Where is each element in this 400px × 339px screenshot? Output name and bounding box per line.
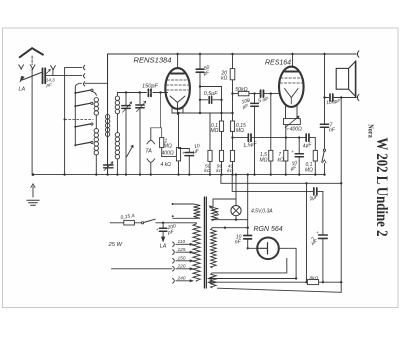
svg-text:TA: TA <box>145 149 152 155</box>
svg-text:MΩ: MΩ <box>236 128 244 134</box>
variable capacitor C-tune2 <box>139 93 141 105</box>
tube RES164 <box>279 67 304 107</box>
wire: left long vertical to bus <box>31 69 33 174</box>
wire: mains second pole <box>112 268 173 270</box>
wire: plate vertical with 50pF <box>199 54 201 69</box>
wire: speaker line y97.5 <box>325 97 329 99</box>
wire: lamp to bus vertical <box>235 175 237 199</box>
tap 110 <box>176 243 190 245</box>
wire: heater line y219.7 <box>213 216 248 220</box>
node: antenna socket Y left <box>19 65 24 70</box>
coil L3 lower <box>116 159 118 175</box>
capacitor 2uF electrolytic <box>319 235 328 238</box>
wire: RENS1384 top cap to rail <box>177 54 179 68</box>
ground symbol <box>32 187 34 198</box>
wire: vertical x306.5 feed <box>306 183 308 282</box>
fuse 0.15A <box>124 220 135 225</box>
node: contact ( 1 <box>84 65 85 69</box>
tube RGN564 <box>257 238 279 260</box>
switch arrow wave change <box>127 145 133 156</box>
resistor 90k divider <box>219 150 223 161</box>
wire: ground bus <box>33 174 325 176</box>
node: earth socket Y right <box>51 66 56 76</box>
trimmer arrow on antenna cap <box>45 69 51 75</box>
capacitor 0.5uF <box>200 99 222 101</box>
wire: output line y282.2 <box>208 281 341 283</box>
svg-text:kΩ: kΩ <box>278 157 285 163</box>
switch arm a <box>74 92 76 94</box>
svg-text:25 W: 25 W <box>108 242 123 248</box>
svg-text:nF: nF <box>329 127 336 133</box>
wire: right vertical x324.5 <box>324 54 326 124</box>
svg-text:kΩ: kΩ <box>221 76 228 82</box>
wire: vertical x322.9 down <box>322 191 324 234</box>
transformer core <box>204 197 206 288</box>
wire: to rectifier filament <box>248 247 258 249</box>
capacitor antenna series <box>42 68 44 83</box>
resistor 50k <box>238 91 249 95</box>
svg-text:4,5V,0,3A: 4,5V,0,3A <box>251 208 273 214</box>
wire: RES164 plate to rail <box>292 54 294 67</box>
wire: top contact feed <box>65 67 82 69</box>
svg-text:LA: LA <box>19 87 26 93</box>
svg-text:0,5μF: 0,5μF <box>204 91 218 97</box>
svg-text:MΩ: MΩ <box>211 128 219 134</box>
coil L1 lower <box>95 155 97 175</box>
svg-text:150pF: 150pF <box>142 84 158 90</box>
pilot lamp <box>231 206 241 216</box>
pilot lamp loop <box>213 199 236 206</box>
resistor 7k bias <box>284 150 288 161</box>
wire: vertical x=64.6 to bus <box>64 68 66 175</box>
resistor 0.1M <box>221 87 223 122</box>
wire: anode feed 1 <box>212 258 287 273</box>
tap 240 <box>176 280 190 282</box>
coil L2 <box>107 54 109 175</box>
mains terminal left <box>110 222 124 224</box>
capacitor 150pF series <box>148 89 151 96</box>
wire: anode feed 2 <box>208 278 296 280</box>
capacitor 50pF <box>196 69 204 72</box>
wire: AF line y137.6 <box>233 137 316 139</box>
capacitor 200pF mains <box>162 223 164 228</box>
svg-text:Nora: Nora <box>367 124 376 138</box>
resistor 0.15M <box>230 121 234 131</box>
svg-text:RGN 564: RGN 564 <box>254 226 283 233</box>
wire: cathode line y113 <box>172 112 233 114</box>
svg-text:RENS1384: RENS1384 <box>134 56 172 65</box>
svg-text:nF: nF <box>235 239 242 245</box>
capacitor 10uF bias bypass <box>298 138 300 154</box>
svg-text:LA: LA <box>160 243 167 249</box>
svg-text:+: + <box>182 151 185 156</box>
wire: contact3 right <box>85 82 108 84</box>
wire: HV top line y227.7 <box>212 227 248 229</box>
node: TA jack upper <box>147 128 155 144</box>
node: antenna socket Y mid <box>30 65 35 70</box>
svg-text:220: 220 <box>177 264 186 270</box>
svg-text:+: + <box>292 149 295 154</box>
wire: switch rail <box>75 83 81 146</box>
svg-text:8kΩ: 8kΩ <box>310 275 319 281</box>
transformer secondary 4V winding <box>212 206 218 221</box>
node: speaker terminal top <box>357 51 359 57</box>
capacitor 100uF <box>254 94 256 104</box>
svg-text:MΩ: MΩ <box>305 167 313 173</box>
resistor 4k cathode <box>178 113 180 148</box>
transformer secondary rectifier filament winding <box>211 273 217 288</box>
speaker <box>336 68 348 89</box>
rheostat 400ohm <box>284 119 301 125</box>
node: speaker terminal bottom <box>357 94 359 100</box>
svg-text:⌐400Ω: ⌐400Ω <box>287 126 302 132</box>
capacitor 1.5uF coupling <box>248 134 251 141</box>
capacitor 7nF <box>320 124 328 127</box>
resistor 1.5M grid leak <box>270 94 272 151</box>
svg-text:kΩ: kΩ <box>216 168 222 174</box>
resistor 40k divider <box>230 150 234 161</box>
tap 125 <box>176 251 190 253</box>
svg-text:150: 150 <box>178 256 186 262</box>
tube RENS1384 <box>165 68 190 109</box>
capacitor 2uF series top <box>317 190 323 192</box>
capacitor 4uF <box>306 134 309 141</box>
switch arm c <box>74 126 76 128</box>
svg-text:125: 125 <box>178 247 186 253</box>
antenna <box>20 48 43 57</box>
resistor 8k bleeder <box>307 280 318 285</box>
switch arm b <box>74 105 76 107</box>
switch arm d <box>74 144 76 146</box>
resistor 0.1M right <box>314 138 316 151</box>
wire: cathode pin down <box>172 106 183 115</box>
wire: vertical x341 <box>340 98 342 293</box>
resistor 50k divider <box>209 113 211 150</box>
transformer secondary HV winding <box>211 229 217 268</box>
wire: RES164 pins down <box>286 106 298 119</box>
switch arm antenna selector <box>23 73 42 80</box>
transformer primary main winding <box>193 223 200 282</box>
node: contact ( 2 <box>84 74 85 78</box>
svg-text:4 kΩ: 4 kΩ <box>161 162 172 168</box>
svg-text:400Ω: 400Ω <box>162 151 174 157</box>
node: contact ( 3 <box>84 82 85 86</box>
wire: screen line y86.5 <box>200 86 222 88</box>
svg-text:kΩ: kΩ <box>227 168 233 174</box>
trimmer capacitor padding <box>104 165 113 168</box>
svg-text:240: 240 <box>177 276 186 282</box>
wire: rectifier output right <box>279 248 296 278</box>
svg-text:+: + <box>156 227 159 232</box>
svg-text:W 202 L Undine 2: W 202 L Undine 2 <box>373 138 390 237</box>
wire: vertical x247.7 from bus <box>247 175 249 236</box>
capacitor 5nF series <box>261 90 264 97</box>
resistor 20k screen <box>232 54 234 69</box>
wire: grid to TA and grid leak <box>159 91 161 93</box>
wire: line y183.3 <box>221 175 341 184</box>
node: TA jack lower <box>147 159 155 175</box>
capacitor 100pF speaker <box>330 94 333 101</box>
wire: line y191.4 with 2uF <box>232 175 313 192</box>
hum balance arrow <box>210 206 219 215</box>
svg-text:+: + <box>316 230 319 235</box>
wire: left vertical from rail <box>107 54 109 175</box>
wire: antenna line to switch bank <box>45 75 82 77</box>
tap 150 <box>176 260 190 262</box>
svg-text:RES164: RES164 <box>265 60 291 67</box>
tap 220 <box>176 268 190 270</box>
resistor 1M grid leak <box>160 138 164 148</box>
switch tone <box>323 149 325 151</box>
variable capacitor C-tune1 <box>125 93 127 106</box>
wire: grid line to RENS1384 <box>117 92 167 94</box>
transformer primary top section <box>173 204 201 218</box>
wire: bottom return line <box>218 288 342 292</box>
wire: switch coupling dashed <box>65 118 93 120</box>
coil L3 upper <box>116 93 118 133</box>
switch mains <box>142 222 144 224</box>
capacitor 10uF cathode bypass <box>188 149 190 153</box>
svg-text:MΩ: MΩ <box>260 157 268 163</box>
svg-text:kΩ: kΩ <box>204 168 210 174</box>
svg-text:50kΩ: 50kΩ <box>235 87 247 93</box>
coil L1 upper <box>92 91 96 128</box>
capacitor 10nF <box>244 236 252 239</box>
wire: top supply rail <box>108 53 357 55</box>
wire: RES164 grid line y93.6 <box>233 93 280 95</box>
svg-text:110: 110 <box>178 239 186 245</box>
wire: antenna lead dashes <box>31 56 33 65</box>
svg-text:MΩ: MΩ <box>164 144 172 150</box>
